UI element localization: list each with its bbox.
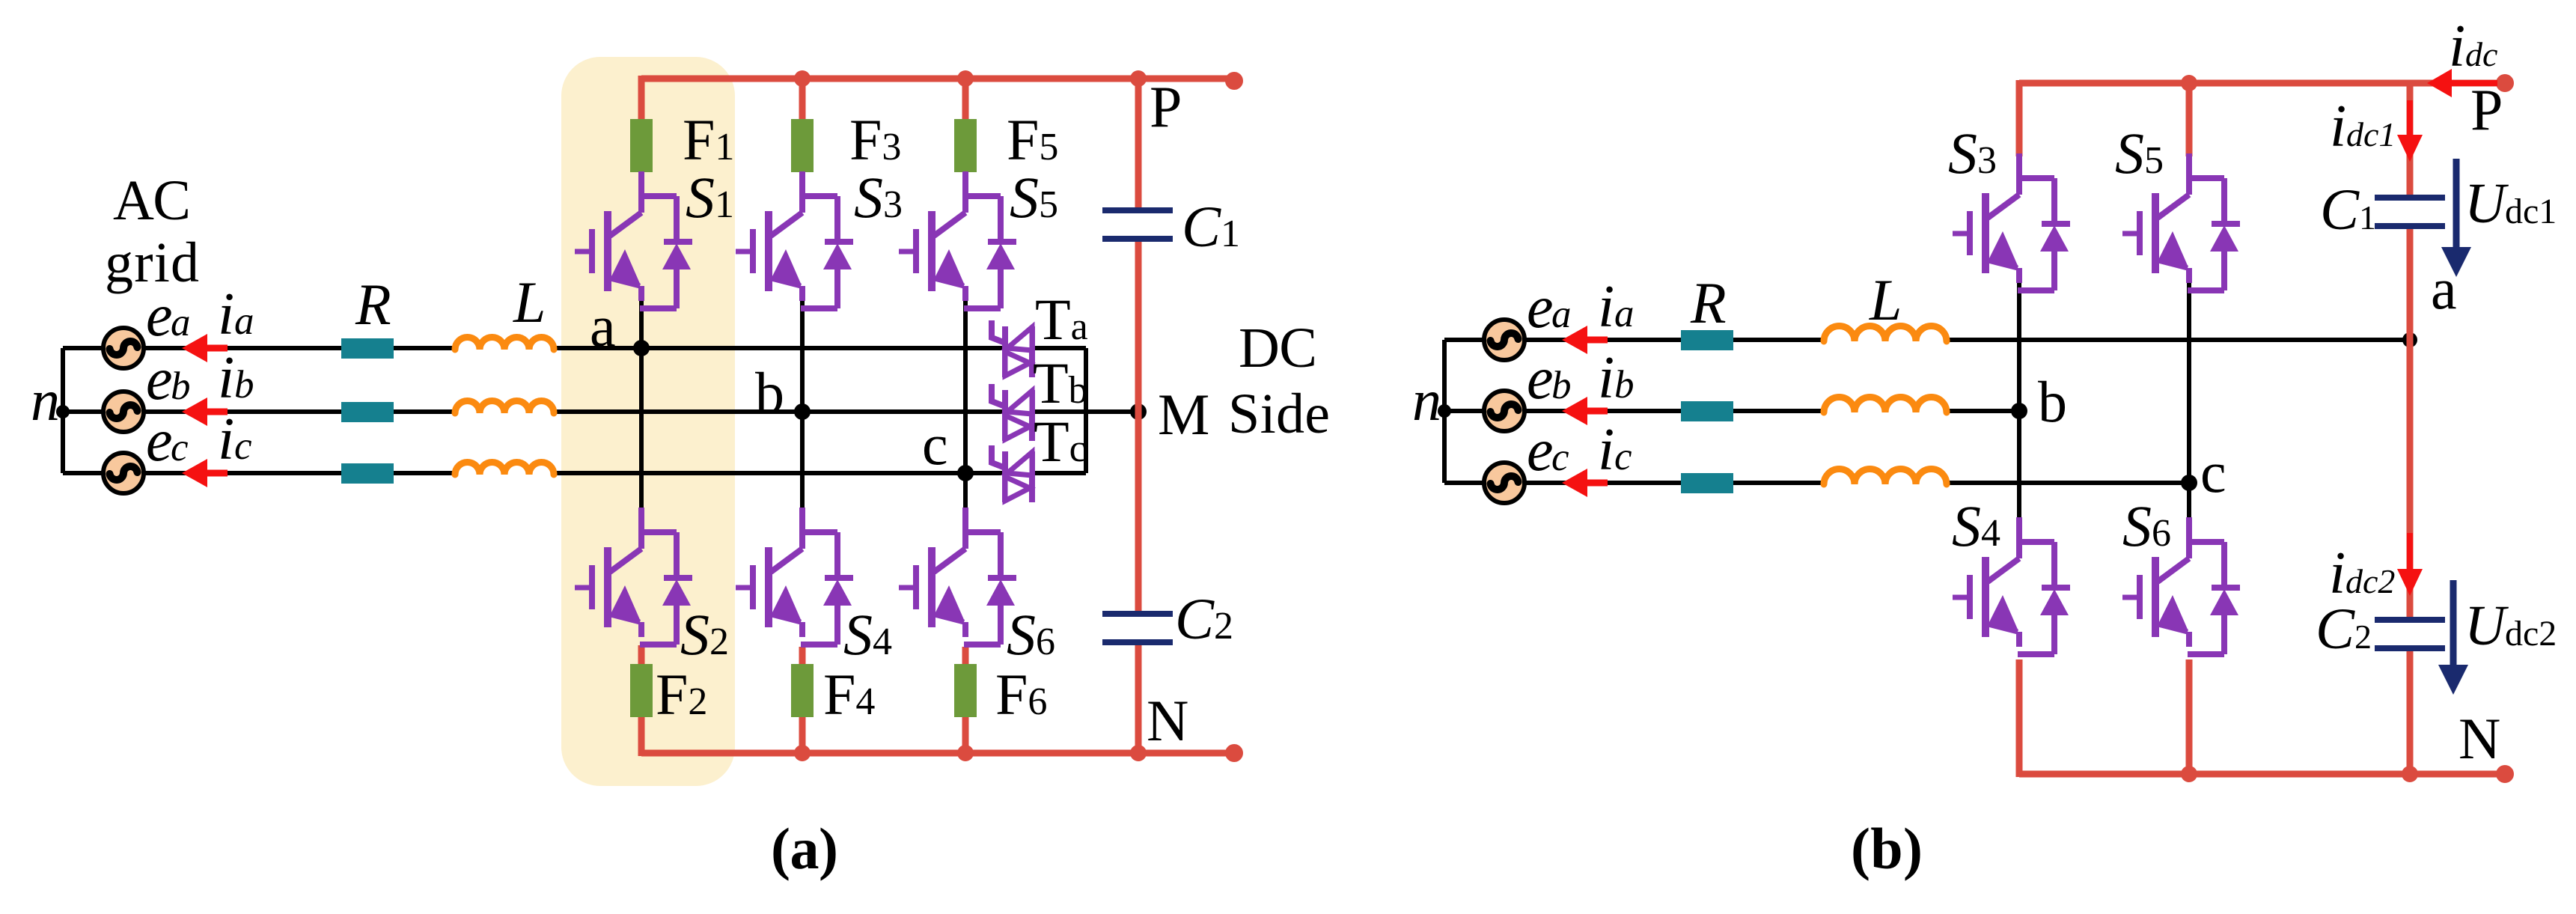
igbt S4	[736, 508, 853, 645]
wire leg b midsection (a)	[800, 298, 805, 509]
label n (a)	[31, 368, 60, 433]
svg-text:DC: DC	[1239, 317, 1317, 380]
igbt S6 (b)	[2122, 517, 2240, 654]
inductor L phase b (b)	[1824, 397, 1947, 413]
label ia (b)	[1598, 274, 1635, 340]
svg-text:F3: F3	[849, 107, 901, 172]
label node a (b)	[2431, 256, 2457, 321]
svg-text:Side: Side	[1228, 383, 1330, 445]
label S3 (b)	[1948, 121, 1997, 186]
label N (a)	[1147, 688, 1188, 753]
svg-text:F5: F5	[1007, 107, 1058, 172]
AC source eb	[103, 392, 144, 432]
igbt S3 (b)	[1953, 153, 2070, 290]
svg-text:dc1: dc1	[2346, 115, 2396, 153]
resistor R phase a (b)	[1681, 330, 1733, 350]
current arrow ic (b)	[1562, 469, 1608, 497]
wire AC neutral bus (b)	[1442, 340, 1447, 483]
svg-text:dc1: dc1	[2505, 192, 2557, 231]
resistor R phase b (a)	[341, 402, 394, 422]
svg-text:e: e	[146, 347, 173, 412]
wire phase b (b)	[1444, 409, 2019, 413]
svg-text:a: a	[171, 301, 191, 344]
svg-text:N: N	[2459, 706, 2500, 771]
svg-text:Ta: Ta	[1035, 287, 1088, 352]
svg-text:F6: F6	[995, 662, 1047, 727]
node a (b)	[2402, 332, 2417, 347]
resistor R phase b (b)	[1681, 401, 1733, 421]
junction dot rail N leg c (a)	[957, 745, 974, 761]
triac Tb	[992, 384, 1032, 441]
svg-text:L: L	[513, 269, 546, 335]
node n (b)	[1438, 404, 1451, 418]
label AC grid	[105, 169, 199, 294]
svg-text:P: P	[1150, 74, 1182, 139]
svg-text:c: c	[922, 412, 948, 477]
wire DC negative rail N (a)	[641, 716, 1234, 756]
junction dot rail P leg2 (b)	[2181, 75, 2197, 91]
highlight strip phase-a leg	[561, 57, 735, 786]
current arrow ic (a)	[182, 459, 228, 487]
svg-text:dc: dc	[2465, 35, 2497, 73]
svg-text:a: a	[1614, 292, 1635, 335]
label S4	[843, 602, 892, 667]
svg-text:dc2: dc2	[2505, 614, 2557, 653]
igbt S4 (b)	[1953, 517, 2070, 654]
svg-text:c: c	[171, 426, 189, 469]
wire S2 emitter stub (a)	[638, 645, 645, 664]
wire fuse stub F4 bottom (a)	[799, 647, 806, 753]
wire AC neutral bus (a)	[61, 348, 65, 473]
svg-text:S4: S4	[843, 602, 892, 667]
label F3	[849, 107, 901, 172]
capacitor C1 (b)	[2375, 198, 2445, 226]
svg-text:i: i	[218, 281, 234, 347]
inductor L phase c (a)	[455, 463, 554, 475]
wire DC positive rail P (b)	[2019, 80, 2505, 156]
svg-text:N: N	[1147, 688, 1188, 753]
label S6	[1007, 602, 1055, 667]
svg-text:c: c	[1614, 435, 1632, 478]
svg-text:Tb: Tb	[1033, 350, 1088, 415]
inductor L phase a (a)	[455, 338, 554, 350]
fuse F1	[630, 119, 653, 172]
label idc1 (b)	[2330, 94, 2396, 159]
node c (a)	[957, 465, 974, 481]
svg-text:b: b	[755, 360, 784, 425]
label eb (b)	[1527, 346, 1572, 412]
node a (a)	[633, 340, 650, 356]
label ec	[146, 408, 189, 474]
svg-text:c: c	[1551, 436, 1569, 479]
wire phase b (a)	[63, 409, 1138, 414]
svg-text:c: c	[234, 424, 252, 468]
svg-text:U: U	[2464, 594, 2509, 657]
resistor R phase a (a)	[341, 338, 394, 359]
node M (a)	[1130, 403, 1147, 420]
wire leg c midsection (a)	[963, 298, 968, 509]
svg-text:(b): (b)	[1851, 816, 1923, 881]
svg-text:e: e	[1527, 418, 1554, 484]
node n (a)	[56, 405, 70, 418]
svg-text:S6: S6	[2122, 493, 2171, 558]
wire fuse stub F3 top (a)	[799, 79, 806, 120]
svg-text:e: e	[146, 283, 173, 349]
junction dot rail P dc-link (a)	[1130, 70, 1147, 87]
label C1 (b)	[2320, 177, 2376, 242]
igbt S5 (b)	[2122, 153, 2240, 290]
current arrow ia (b)	[1562, 326, 1608, 354]
label ib (a)	[218, 345, 254, 411]
svg-text:C2: C2	[2316, 596, 2372, 661]
terminal dot P (a)	[1225, 72, 1243, 90]
fuse F5	[954, 119, 977, 172]
label ea (b)	[1527, 275, 1572, 341]
label M (a)	[1158, 382, 1209, 447]
AC source ec (b)	[1484, 463, 1524, 503]
node c (b)	[2181, 475, 2197, 491]
junction dot rail N dc-link (b)	[2402, 766, 2418, 782]
label idc2 (b)	[2329, 540, 2395, 606]
svg-text:b: b	[1614, 363, 1635, 406]
wire phase a (a)	[63, 346, 1086, 350]
wire fuse stub F5 top (a)	[962, 79, 969, 120]
label L (b)	[1869, 267, 1902, 332]
label R (b)	[1690, 270, 1727, 335]
terminal dot P (b)	[2496, 74, 2514, 92]
capacitor C2 (a)	[1102, 614, 1173, 642]
label F6	[995, 662, 1047, 727]
label ea	[146, 283, 191, 349]
svg-text:S3: S3	[1948, 121, 1997, 186]
label Udc2 (b)	[2464, 594, 2557, 657]
svg-text:M: M	[1158, 382, 1209, 447]
svg-text:AC: AC	[113, 169, 191, 232]
label C2 (b)	[2316, 596, 2372, 661]
svg-text:e: e	[1527, 346, 1554, 412]
label S2	[680, 602, 729, 667]
junction dot rail P leg c (a)	[957, 70, 974, 87]
svg-text:i: i	[2449, 13, 2465, 79]
wire DC link vertical (a)	[1135, 79, 1142, 753]
fuse F3	[791, 119, 814, 172]
svg-text:i: i	[218, 406, 234, 472]
triac Tc	[992, 445, 1032, 502]
svg-text:n: n	[1412, 368, 1441, 433]
capacitor C2 (b)	[2375, 620, 2445, 648]
current arrow ib (a)	[182, 397, 228, 426]
label S4 (b)	[1952, 493, 2000, 558]
label ic (a)	[218, 406, 252, 472]
label idc (b)	[2449, 13, 2497, 79]
svg-text:S4: S4	[1952, 493, 2000, 558]
svg-text:L: L	[1869, 267, 1902, 332]
svg-text:c: c	[2200, 439, 2226, 505]
igbt S3	[736, 171, 853, 308]
wire leg1 midsection (b)	[2017, 280, 2021, 520]
fuse F6	[954, 664, 977, 717]
wire S6 emitter stub (b)	[2186, 659, 2193, 774]
igbt S2	[575, 508, 692, 645]
label F1	[683, 107, 734, 172]
svg-text:U: U	[2464, 172, 2509, 235]
svg-text:n: n	[31, 368, 60, 433]
resistor R phase c (a)	[341, 463, 394, 484]
label node c (a)	[922, 412, 948, 477]
svg-text:P: P	[2470, 77, 2503, 142]
label node a (a)	[590, 293, 616, 359]
wire S5 collector stub (b)	[2186, 83, 2193, 156]
svg-text:b: b	[1551, 364, 1572, 407]
inductor L phase b (a)	[455, 401, 554, 413]
voltage arrow Udc2 (b)	[2438, 580, 2468, 695]
label eb	[146, 347, 191, 412]
wire DC link vertical (b)	[2407, 83, 2414, 774]
current arrow idc1 (b)	[2397, 100, 2423, 162]
svg-text:R: R	[355, 272, 391, 337]
label P (b)	[2470, 77, 2503, 142]
label F2	[656, 662, 707, 727]
current arrow ia (a)	[182, 334, 228, 362]
label ib (b)	[1598, 345, 1635, 411]
node b (b)	[2011, 403, 2027, 419]
label C1 (a)	[1182, 194, 1240, 259]
label node c (b)	[2200, 439, 2226, 505]
label P (a)	[1150, 74, 1182, 139]
current arrow idc2 (b)	[2397, 533, 2423, 596]
igbt S1	[575, 171, 692, 308]
svg-text:a: a	[234, 299, 254, 343]
svg-text:dc2: dc2	[2345, 562, 2395, 600]
wire phase c (a)	[63, 471, 1086, 475]
svg-text:i: i	[1598, 345, 1614, 411]
svg-text:(a): (a)	[771, 816, 838, 881]
svg-text:a: a	[1551, 293, 1572, 336]
current arrow ib (b)	[1562, 397, 1608, 425]
svg-text:e: e	[1527, 275, 1554, 341]
svg-text:S5: S5	[2115, 121, 2164, 186]
svg-text:i: i	[218, 345, 234, 411]
svg-text:R: R	[1690, 270, 1727, 335]
svg-text:i: i	[1598, 274, 1614, 340]
fuse F4	[791, 664, 814, 717]
label S6 (b)	[2122, 493, 2171, 558]
current arrow idc (b)	[2427, 69, 2497, 97]
label node b (a)	[755, 360, 784, 425]
label S5 (b)	[2115, 121, 2164, 186]
svg-text:F4: F4	[823, 662, 875, 727]
label Udc1 (b)	[2464, 172, 2557, 235]
svg-text:i: i	[1598, 417, 1614, 483]
voltage arrow Udc1 (b)	[2441, 159, 2471, 277]
label node b (b)	[2038, 369, 2067, 434]
wire triac bracket vertical (a)	[1084, 348, 1088, 473]
label L (a)	[513, 269, 546, 335]
label ia (a)	[218, 281, 254, 347]
terminal dot N (a)	[1225, 744, 1243, 762]
fuse F2	[630, 664, 653, 717]
wire fuse stub F6 bottom (a)	[962, 647, 969, 753]
label Tb	[1033, 350, 1088, 415]
capacitor C1 (a)	[1102, 210, 1173, 239]
triac Ta	[992, 320, 1032, 377]
label S1	[686, 165, 734, 230]
label R (a)	[355, 272, 391, 337]
junction dot rail N leg b (a)	[794, 745, 811, 761]
svg-text:C1: C1	[2320, 177, 2376, 242]
svg-text:a: a	[2431, 256, 2457, 321]
node b (a)	[794, 403, 811, 420]
inductor L phase c (b)	[1824, 469, 1947, 485]
svg-text:b: b	[171, 365, 191, 408]
label C2 (a)	[1175, 586, 1233, 651]
resistor R phase c (b)	[1681, 473, 1733, 493]
caption (b)	[1851, 816, 1923, 881]
svg-text:i: i	[2330, 94, 2346, 159]
label F4	[823, 662, 875, 727]
svg-text:a: a	[590, 293, 616, 359]
label ic (b)	[1598, 417, 1632, 483]
label N (b)	[2459, 706, 2500, 771]
terminal dot N (b)	[2496, 765, 2514, 783]
wire leg2 midsection (b)	[2187, 280, 2191, 520]
svg-text:b: b	[2038, 369, 2067, 434]
label ec (b)	[1527, 418, 1569, 484]
junction dot rail P leg b (a)	[794, 70, 811, 87]
svg-text:C2: C2	[1175, 586, 1233, 651]
AC source eb (b)	[1484, 391, 1524, 431]
label S5	[1010, 165, 1058, 230]
junction dot rail N dc-link (a)	[1130, 745, 1147, 761]
caption (a)	[771, 816, 838, 881]
svg-text:e: e	[146, 408, 173, 474]
svg-text:S5: S5	[1010, 165, 1058, 230]
wire leg a midsection (a)	[639, 298, 644, 509]
svg-text:Tc: Tc	[1034, 409, 1087, 474]
igbt S6	[899, 508, 1016, 645]
AC source ec	[103, 453, 144, 493]
AC source ea (b)	[1484, 320, 1524, 360]
label Ta	[1035, 287, 1088, 352]
label S3	[854, 165, 903, 230]
igbt S5	[899, 171, 1016, 308]
svg-text:b: b	[234, 363, 254, 406]
wire phase a (b)	[1444, 338, 2410, 342]
label Tc	[1034, 409, 1087, 474]
svg-text:S6: S6	[1007, 602, 1055, 667]
label DC Side	[1228, 317, 1330, 445]
junction dot rail N leg2 (b)	[2181, 766, 2197, 782]
label n (b)	[1412, 368, 1441, 433]
wire phase c (b)	[1444, 481, 2189, 485]
wire DC positive rail P (a)	[641, 76, 1234, 120]
inductor L phase a (b)	[1824, 326, 1947, 342]
label F5	[1007, 107, 1058, 172]
AC source ea	[103, 328, 144, 368]
svg-text:S3: S3	[854, 165, 903, 230]
wire DC negative rail N (b)	[2019, 659, 2505, 777]
svg-text:C1: C1	[1182, 194, 1240, 259]
